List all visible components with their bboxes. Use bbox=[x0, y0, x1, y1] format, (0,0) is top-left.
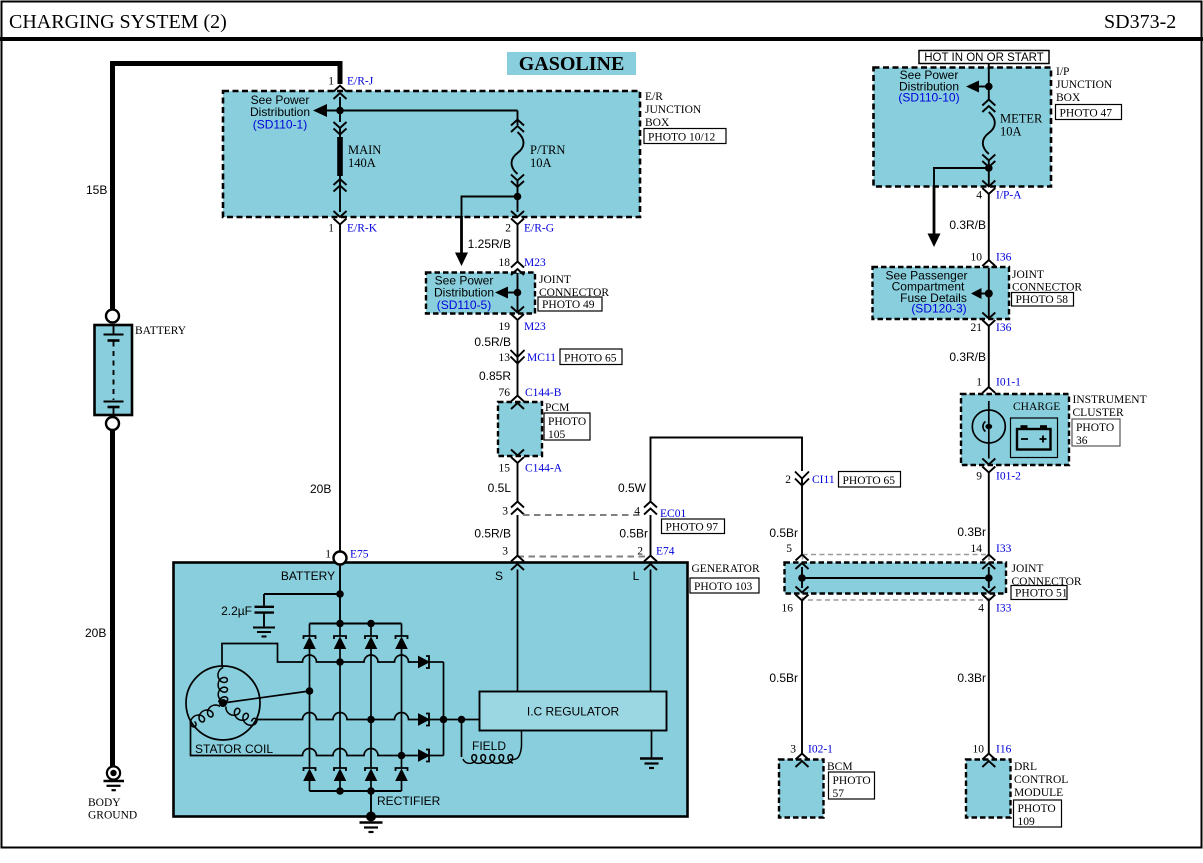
fuse METER 10A bbox=[982, 100, 995, 168]
svg-text:18: 18 bbox=[499, 257, 511, 269]
rectifier output vertical link bbox=[443, 662, 445, 756]
stator phase row 1 bbox=[222, 644, 419, 667]
svg-text:4: 4 bbox=[978, 603, 984, 615]
wire thick battery drop left bbox=[110, 61, 115, 310]
svg-text:4: 4 bbox=[976, 190, 982, 202]
svg-text:CLUSTER: CLUSTER bbox=[1073, 407, 1124, 419]
photo 49 box bbox=[538, 297, 602, 311]
svg-text:1: 1 bbox=[325, 549, 331, 561]
stator winding top bbox=[218, 666, 228, 702]
svg-text:BATTERY: BATTERY bbox=[281, 569, 335, 583]
connector E74 dashed link bbox=[518, 556, 651, 558]
wire E/R-K to E75 bbox=[339, 223, 341, 551]
svg-text:E75: E75 bbox=[350, 549, 369, 561]
svg-text:CHARGING SYSTEM (2): CHARGING SYSTEM (2) bbox=[9, 11, 227, 33]
svg-text:PHOTO 58: PHOTO 58 bbox=[1016, 294, 1069, 306]
svg-text:P/TRN: P/TRN bbox=[530, 143, 565, 157]
joint connector 51 bus bbox=[802, 577, 989, 579]
svg-text:0.3Br: 0.3Br bbox=[957, 525, 986, 539]
svg-text:0.5L: 0.5L bbox=[488, 481, 512, 495]
rectifier top diodes bbox=[304, 624, 408, 769]
diode top D3 bbox=[365, 624, 377, 769]
connector I01-2 pin 9 exit chevrons bbox=[982, 459, 995, 473]
svg-text:109: 109 bbox=[1018, 816, 1036, 828]
diode top D1 bbox=[304, 624, 316, 769]
battery icon outer bbox=[1011, 418, 1058, 458]
svg-text:I.C REGULATOR: I.C REGULATOR bbox=[527, 705, 620, 719]
wire 0.5W loop to CI11 bbox=[651, 438, 803, 502]
diode top D2 bbox=[334, 624, 346, 769]
branch wire to SD120-3 arrow bbox=[934, 168, 989, 187]
connector EC01 dashed link bbox=[523, 514, 644, 516]
svg-text:I36: I36 bbox=[996, 252, 1012, 264]
stator neutral diagonal bbox=[223, 691, 310, 703]
svg-text:2: 2 bbox=[637, 546, 643, 558]
wire EC01-3 to E74-3 bbox=[517, 515, 519, 556]
svg-text:GASOLINE: GASOLINE bbox=[519, 53, 625, 75]
svg-text:I36: I36 bbox=[996, 322, 1012, 334]
wire I36 to I01-1 bbox=[988, 325, 990, 387]
rectifier top bus bbox=[310, 623, 402, 625]
svg-text:2.2µF: 2.2µF bbox=[221, 604, 252, 618]
svg-text:MODULE: MODULE bbox=[1014, 787, 1063, 799]
wire through SD110-5 bbox=[517, 273, 519, 313]
svg-text:0.5Br: 0.5Br bbox=[769, 526, 798, 540]
diode output D11 bbox=[419, 750, 444, 762]
svg-text:JUNCTION: JUNCTION bbox=[1056, 79, 1113, 91]
joint connector SD120-3 box bbox=[873, 267, 1010, 319]
battery top terminal circle bbox=[106, 310, 119, 323]
svg-text:14: 14 bbox=[971, 543, 983, 555]
wire E75 into generator bbox=[339, 565, 341, 624]
wire node to P/TRN fuse bbox=[325, 110, 518, 112]
stator winding right bbox=[226, 707, 257, 726]
wire L inside generator bbox=[650, 570, 652, 692]
svg-text:I33: I33 bbox=[996, 543, 1012, 555]
diode output D10 bbox=[419, 714, 480, 726]
svg-text:I01-1: I01-1 bbox=[996, 377, 1021, 389]
svg-text:10A: 10A bbox=[1000, 125, 1022, 139]
connector I36 pin 21 exit chevrons bbox=[982, 313, 995, 327]
svg-text:PCM: PCM bbox=[545, 402, 569, 414]
svg-text:(SD110-1): (SD110-1) bbox=[253, 118, 307, 132]
node SD120-3 junction bbox=[985, 290, 993, 298]
svg-text:BCM: BCM bbox=[827, 761, 853, 773]
svg-text:(SD110-10): (SD110-10) bbox=[898, 91, 959, 105]
wire thick battery to body ground bbox=[110, 430, 115, 766]
svg-text:5: 5 bbox=[786, 543, 792, 555]
svg-text:E74: E74 bbox=[656, 546, 675, 558]
photo 65 box right bbox=[839, 472, 901, 488]
node top bus junctions bbox=[336, 620, 344, 628]
generator pin S chevrons bbox=[511, 556, 524, 571]
svg-text:PHOTO 51: PHOTO 51 bbox=[1015, 588, 1068, 600]
node bottom bus junctions bbox=[336, 787, 344, 795]
connector I36 pin 10 entry chevrons bbox=[982, 260, 995, 274]
svg-text:STATOR COIL: STATOR COIL bbox=[195, 742, 273, 756]
diode bottom D6 bbox=[334, 768, 346, 791]
svg-text:CHARGE: CHARGE bbox=[1013, 401, 1060, 413]
svg-text:CI11: CI11 bbox=[812, 474, 835, 486]
photo 57 box bbox=[829, 772, 875, 799]
svg-text:SD373-2: SD373-2 bbox=[1104, 11, 1176, 33]
svg-text:DRL: DRL bbox=[1014, 761, 1037, 773]
svg-text:BATTERY: BATTERY bbox=[135, 325, 187, 337]
connector E/R-K pin 1 exit chevrons bbox=[334, 211, 347, 225]
svg-text:3: 3 bbox=[502, 506, 508, 518]
svg-text:3: 3 bbox=[502, 546, 508, 558]
junction node battery branch bbox=[336, 590, 344, 598]
svg-text:PHOTO: PHOTO bbox=[548, 416, 586, 428]
BCM entry chevrons bbox=[796, 754, 809, 768]
photo 10/12 box bbox=[644, 129, 726, 144]
svg-text:19: 19 bbox=[499, 321, 511, 333]
svg-text:GENERATOR: GENERATOR bbox=[692, 563, 760, 575]
svg-text:105: 105 bbox=[548, 429, 566, 441]
SD120-3 arrow and node bbox=[971, 288, 982, 299]
svg-text:10: 10 bbox=[973, 744, 985, 756]
wire E/R-G to M23 bbox=[517, 225, 519, 262]
svg-text:E/R-G: E/R-G bbox=[524, 223, 554, 235]
BCM box bbox=[779, 760, 824, 818]
fuse P/TRN 10A bbox=[511, 111, 524, 213]
svg-text:METER: METER bbox=[1000, 112, 1043, 126]
svg-text:JOINT: JOINT bbox=[1012, 563, 1044, 575]
svg-text:I01-2: I01-2 bbox=[996, 471, 1021, 483]
stator winding left bbox=[191, 705, 221, 727]
joint connector 51 outer shell bbox=[803, 555, 990, 601]
rectifier ground stem bbox=[370, 791, 372, 817]
wire CI11 to pin 5 bbox=[801, 479, 803, 555]
joint connector 51 box bbox=[785, 563, 1007, 594]
connector I/P-A pin 4 exit chevrons bbox=[982, 181, 995, 195]
photo 51 box bbox=[1011, 586, 1067, 600]
svg-text:10: 10 bbox=[971, 252, 983, 264]
svg-text:0.85R: 0.85R bbox=[479, 369, 511, 383]
wire through cluster bbox=[988, 401, 990, 459]
connector CI11 pin 2 bbox=[795, 472, 809, 486]
svg-text:PHOTO 65: PHOTO 65 bbox=[564, 353, 617, 365]
svg-text:36: 36 bbox=[1076, 435, 1088, 447]
svg-text:INSTRUMENT: INSTRUMENT bbox=[1073, 394, 1147, 406]
svg-text:57: 57 bbox=[833, 788, 845, 800]
svg-text:MC11: MC11 bbox=[527, 352, 556, 364]
IC regulator box bbox=[480, 692, 667, 731]
svg-text:9: 9 bbox=[976, 471, 982, 483]
I/P junction box bbox=[874, 68, 1052, 187]
charge indicator bulb bbox=[972, 410, 1005, 443]
wire 4 to DRL bbox=[988, 600, 990, 754]
C144-B entry chevrons bbox=[511, 396, 524, 410]
junction node P/TRN branch bbox=[514, 193, 522, 201]
svg-text:0.5Br: 0.5Br bbox=[769, 671, 798, 685]
svg-text:1: 1 bbox=[328, 76, 334, 88]
fusible link MAIN 140A bbox=[334, 111, 347, 138]
wire 16 to BCM bbox=[801, 600, 803, 754]
diode output D9 bbox=[419, 656, 444, 668]
svg-text:JOINT: JOINT bbox=[539, 274, 571, 286]
connector EC01 left chevrons bbox=[511, 502, 524, 515]
svg-text:L: L bbox=[633, 569, 640, 583]
svg-text:I02-1: I02-1 bbox=[808, 744, 833, 756]
svg-text:JUNCTION: JUNCTION bbox=[645, 104, 702, 116]
battery bottom terminal circle bbox=[106, 417, 119, 430]
svg-text:10A: 10A bbox=[530, 156, 552, 170]
svg-text:PHOTO 65: PHOTO 65 bbox=[843, 475, 896, 487]
svg-text:CONNECTOR: CONNECTOR bbox=[1012, 282, 1082, 294]
svg-text:E/R-K: E/R-K bbox=[347, 223, 378, 235]
photo 58 box bbox=[1012, 293, 1074, 307]
diode top D4 bbox=[396, 624, 408, 769]
wire C144-A to EC01 bbox=[517, 463, 519, 502]
svg-text:2: 2 bbox=[505, 223, 511, 235]
DRL box bbox=[966, 760, 1011, 818]
HOT IN ON OR START box bbox=[919, 51, 1049, 64]
wire I01-2 to I33 bbox=[988, 472, 990, 555]
DRL entry chevrons bbox=[982, 754, 995, 768]
connector E75 pin 1 circle bbox=[334, 552, 347, 565]
svg-text:21: 21 bbox=[971, 322, 983, 334]
svg-text:M23: M23 bbox=[524, 257, 546, 269]
svg-text:GROUND: GROUND bbox=[88, 810, 137, 822]
SD110-5 arrow and node bbox=[495, 287, 508, 299]
svg-text:I33: I33 bbox=[996, 603, 1012, 615]
svg-text:RECTIFIER: RECTIFIER bbox=[377, 794, 441, 808]
wire to capacitor bbox=[264, 593, 340, 595]
stator phase row 2 bbox=[256, 713, 419, 720]
svg-text:1: 1 bbox=[976, 377, 982, 389]
svg-text:1.25R/B: 1.25R/B bbox=[468, 237, 511, 251]
svg-text:20B: 20B bbox=[85, 626, 106, 640]
svg-text:I16: I16 bbox=[996, 744, 1012, 756]
svg-text:76: 76 bbox=[499, 387, 511, 399]
svg-text:0.3R/B: 0.3R/B bbox=[949, 350, 986, 364]
pin 16 chevrons bbox=[796, 578, 809, 601]
svg-text:CONTROL: CONTROL bbox=[1014, 774, 1068, 786]
diode bottom D8 bbox=[396, 768, 408, 791]
svg-text:4: 4 bbox=[634, 506, 640, 518]
svg-text:3: 3 bbox=[790, 744, 796, 756]
pin 4 chevrons bbox=[982, 578, 995, 601]
svg-text:140A: 140A bbox=[348, 156, 376, 170]
wire from hot feed bbox=[988, 64, 990, 100]
svg-text:M23: M23 bbox=[524, 321, 546, 333]
M23 exit chevrons bbox=[511, 307, 524, 321]
svg-text:PHOTO 10/12: PHOTO 10/12 bbox=[648, 132, 715, 144]
svg-text:PHOTO: PHOTO bbox=[1076, 422, 1114, 434]
connector E/R-G pin 2 exit chevrons bbox=[511, 211, 524, 225]
svg-text:0.5W: 0.5W bbox=[618, 481, 647, 495]
PCM box bbox=[498, 402, 542, 456]
joint connector SD110-5 box bbox=[426, 273, 535, 314]
svg-text:EC01: EC01 bbox=[660, 508, 686, 520]
wire EC01-4 to E74-2 bbox=[650, 515, 652, 556]
body ground bars bbox=[104, 781, 125, 790]
svg-text:PHOTO: PHOTO bbox=[1018, 803, 1056, 815]
junction node dot bbox=[336, 107, 344, 115]
diode bottom D5 bbox=[304, 768, 316, 791]
svg-text:0.5Br: 0.5Br bbox=[619, 527, 648, 541]
svg-text:2: 2 bbox=[785, 474, 791, 486]
svg-text:0.3Br: 0.3Br bbox=[957, 671, 986, 685]
svg-text:C144-A: C144-A bbox=[525, 463, 563, 475]
wire M23 to MC11 to PCM bbox=[517, 320, 519, 396]
svg-text:1: 1 bbox=[328, 223, 334, 235]
wire S inside generator bbox=[517, 570, 519, 692]
rectifier bottom diodes bbox=[304, 768, 408, 791]
svg-text:HOT IN ON OR START: HOT IN ON OR START bbox=[924, 52, 1043, 64]
branch wire to SD110-5 arrow bbox=[462, 197, 518, 218]
instrument cluster box bbox=[961, 394, 1069, 465]
GASOLINE banner bbox=[507, 52, 636, 75]
svg-text:BOX: BOX bbox=[645, 117, 670, 129]
svg-text:E/R-J: E/R-J bbox=[347, 76, 374, 88]
connector EC01 right chevrons bbox=[644, 502, 657, 515]
svg-text:BOX: BOX bbox=[1056, 92, 1081, 104]
battery symbol internals bbox=[104, 325, 124, 415]
rectifier bottom bus bbox=[310, 790, 402, 792]
C144-A exit chevrons bbox=[511, 450, 524, 464]
M23 entry chevrons bbox=[511, 262, 524, 276]
diode bottom D7 bbox=[365, 768, 377, 791]
svg-text:16: 16 bbox=[782, 603, 794, 615]
photo 97 box bbox=[662, 519, 725, 534]
battery BATTERY box bbox=[95, 325, 133, 415]
svg-text:BODY: BODY bbox=[88, 797, 121, 809]
svg-text:20B: 20B bbox=[310, 482, 331, 496]
battery icon bbox=[1017, 429, 1051, 450]
body ground ring bbox=[107, 766, 120, 779]
svg-text:0.5R/B: 0.5R/B bbox=[474, 527, 511, 541]
wire thick battery feed top bbox=[113, 64, 341, 85]
svg-text:PHOTO 47: PHOTO 47 bbox=[1060, 108, 1113, 120]
node I/P feed junction bbox=[985, 83, 993, 91]
svg-text:PHOTO 49: PHOTO 49 bbox=[542, 299, 595, 311]
svg-text:MAIN: MAIN bbox=[348, 143, 381, 157]
stator phase row 3 bbox=[191, 721, 419, 756]
svg-text:15: 15 bbox=[499, 463, 511, 475]
svg-text:PHOTO 97: PHOTO 97 bbox=[666, 522, 719, 534]
node SD110-5 junction bbox=[514, 289, 522, 297]
svg-text:0.3R/B: 0.3R/B bbox=[949, 218, 986, 232]
svg-text:15B: 15B bbox=[86, 183, 107, 197]
connector I01-1 pin 1 entry chevrons bbox=[982, 387, 995, 401]
see power distribution arrow (SD110-1) bbox=[313, 104, 327, 117]
photo 109 box bbox=[1014, 800, 1062, 827]
svg-text:JOINT: JOINT bbox=[1012, 269, 1044, 281]
inline connector MC11 bbox=[511, 350, 525, 364]
see power distribution arrow (SD110-10) bbox=[966, 81, 979, 93]
wire I/P-A to I36 bbox=[988, 193, 990, 260]
rectifier output diodes right bbox=[419, 656, 480, 762]
header separator line bbox=[0, 37, 1203, 41]
connector E/R-J pin 1 entry chevrons bbox=[334, 86, 347, 111]
pin 14 chevrons bbox=[982, 555, 995, 579]
svg-text:I/P: I/P bbox=[1056, 66, 1069, 78]
svg-text:(SD120-3): (SD120-3) bbox=[911, 302, 966, 316]
photo 105 box bbox=[544, 413, 590, 440]
svg-text:PHOTO: PHOTO bbox=[833, 775, 871, 787]
E/R junction box bbox=[223, 91, 640, 217]
svg-text:(SD110-5): (SD110-5) bbox=[437, 298, 491, 312]
generator box bbox=[174, 563, 688, 817]
svg-text:C144-B: C144-B bbox=[525, 387, 562, 399]
svg-text:I/P-A: I/P-A bbox=[996, 190, 1022, 202]
svg-text:FIELD: FIELD bbox=[472, 739, 506, 753]
wire through SD120-3 bbox=[988, 268, 990, 319]
capacitor 2.2uF bbox=[253, 594, 275, 637]
generator pin L chevrons bbox=[644, 556, 657, 571]
svg-text:S: S bbox=[495, 569, 503, 583]
field winding bbox=[461, 720, 463, 758]
junction node meter branch bbox=[988, 160, 990, 187]
pin 5 chevrons bbox=[796, 555, 809, 579]
stator coil circle bbox=[186, 666, 260, 740]
svg-text:PHOTO 103: PHOTO 103 bbox=[694, 581, 753, 593]
svg-text:E/R: E/R bbox=[645, 91, 663, 103]
photo 103 box bbox=[690, 578, 759, 593]
photo 36 box bbox=[1072, 419, 1120, 446]
svg-text:13: 13 bbox=[499, 352, 511, 364]
photo 47 box bbox=[1056, 105, 1122, 120]
IC regulator ground bbox=[640, 731, 663, 769]
svg-text:0.5R/B: 0.5R/B bbox=[474, 335, 511, 349]
photo 65 box bbox=[560, 349, 622, 365]
